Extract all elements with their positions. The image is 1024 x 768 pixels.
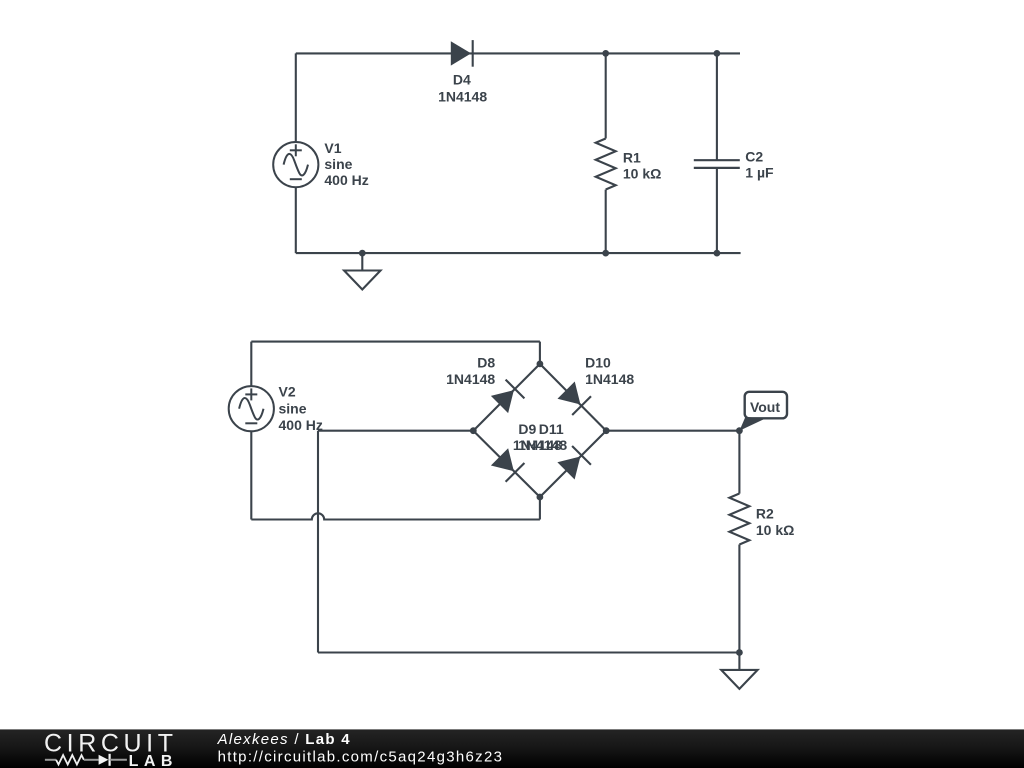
svg-text:Alexkees / Lab 4: Alexkees / Lab 4 (217, 731, 351, 748)
svg-text:R2: R2 (756, 506, 774, 522)
svg-text:D9: D9 (518, 421, 536, 437)
svg-text:10 kΩ: 10 kΩ (756, 522, 794, 538)
svg-text:D4: D4 (453, 72, 471, 88)
svg-text:400 Hz: 400 Hz (279, 417, 323, 433)
svg-text:http://circuitlab.com/c5aq24g3: http://circuitlab.com/c5aq24g3h6z23 (218, 748, 504, 765)
svg-text:1N4148: 1N4148 (518, 437, 567, 453)
svg-text:1 µF: 1 µF (745, 164, 774, 180)
svg-text:D11: D11 (539, 421, 564, 437)
svg-text:400 Hz: 400 Hz (324, 172, 368, 188)
svg-text:1N4148: 1N4148 (446, 371, 495, 387)
svg-text:10 kΩ: 10 kΩ (623, 166, 661, 182)
svg-text:1N4148: 1N4148 (438, 89, 487, 105)
svg-text:D10: D10 (585, 355, 611, 371)
svg-text:Vout: Vout (750, 399, 780, 415)
svg-text:V1: V1 (324, 140, 341, 156)
svg-text:sine: sine (324, 156, 352, 172)
svg-text:C2: C2 (745, 148, 763, 164)
svg-text:D8: D8 (477, 355, 495, 371)
svg-text:1N4148: 1N4148 (585, 371, 634, 387)
svg-text:sine: sine (279, 400, 307, 416)
svg-text:V2: V2 (279, 384, 296, 400)
svg-text:LAB: LAB (129, 753, 178, 768)
svg-text:R1: R1 (623, 150, 641, 166)
